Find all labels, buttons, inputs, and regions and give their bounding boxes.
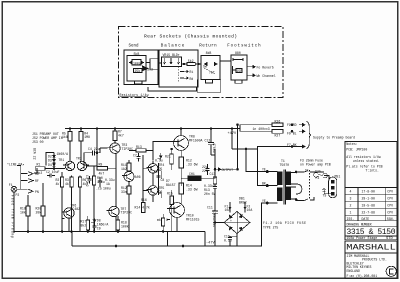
svg-text:4k7: 4k7: [65, 182, 71, 186]
transformer T1 secondary winding upper: [286, 172, 290, 185]
ML1 pin E: [331, 192, 334, 195]
arrow to preamp 2: [299, 130, 305, 133]
resistor R12b body: [127, 186, 131, 194]
svg-text:YE: YE: [262, 199, 266, 203]
wire P2 to contacts: [17, 188, 28, 190]
capacitor C13: [205, 164, 209, 175]
capacitor C16: [228, 234, 237, 247]
svg-text:4: 4: [350, 190, 352, 194]
resistor 25k in send jack: [134, 69, 143, 73]
wire contact feeds: [21, 174, 28, 181]
wire TR2 collector out: [87, 165, 97, 167]
svg-text:100u: 100u: [97, 180, 105, 184]
svg-text:Fo Reverb: Fo Reverb: [257, 65, 274, 69]
svg-text:MS1: MS1: [335, 175, 341, 179]
svg-text:33n: 33n: [121, 190, 127, 194]
svg-text:R16: R16: [141, 198, 147, 202]
svg-text:Resistors 1/4w: Resistors 1/4w: [120, 93, 149, 97]
wire feedback column: [142, 155, 144, 202]
svg-text:100u: 100u: [103, 187, 111, 191]
svg-text:+: +: [230, 219, 232, 223]
svg-text:R21: R21: [165, 155, 171, 159]
svg-text:4700u: 4700u: [212, 143, 216, 153]
svg-text:TYPE 275: TYPE 275: [263, 226, 278, 230]
transformer T1 secondary winding lower: [286, 187, 290, 200]
svg-text:8: 8: [166, 218, 168, 222]
bottom rail left: [14, 231, 205, 233]
node dot rail R5: [69, 128, 71, 130]
svg-text:R9: R9: [99, 162, 103, 166]
svg-text:C13: C13: [210, 172, 216, 176]
arrow Ri: [184, 70, 189, 72]
svg-text:BC482: BC482: [71, 207, 81, 211]
vertical wire x237: [237, 125, 239, 169]
transistor TR2: [77, 161, 86, 170]
svg-text:CPV: CPV: [387, 211, 393, 215]
svg-text:2: 2: [350, 204, 352, 208]
resistor R16v body: [142, 203, 145, 213]
wire TR10 emitter down: [167, 217, 177, 231]
wire TR10 collector: [180, 194, 182, 204]
wire C4 to TR3 base: [84, 148, 100, 166]
svg-text:OUTPUT: OUTPUT: [222, 168, 234, 172]
svg-text:DATE: DATE: [362, 217, 370, 221]
svg-text:TR1: TR1: [58, 158, 64, 162]
svg-text:100p: 100p: [133, 61, 141, 65]
svg-text:4k7: 4k7: [56, 182, 62, 186]
wire R20: [42, 183, 44, 232]
svg-text:F7 BK: F7 BK: [287, 143, 297, 147]
dashed wiper lines: [177, 67, 179, 82]
svg-text:YE: YE: [262, 168, 266, 172]
svg-text:Rear Sockets (Chassis mounted): Rear Sockets (Chassis mounted): [144, 34, 237, 40]
bottom rail lower: [72, 245, 262, 247]
svg-text:.33 6W: .33 6W: [186, 187, 198, 191]
wire to YE1: [246, 149, 268, 172]
arrow OUTPUT: [217, 168, 221, 171]
capacitor 100p in send jack: [132, 60, 141, 66]
resistor R15 body: [170, 196, 173, 205]
node dots bottom rail: [27, 231, 29, 233]
wire send to balance: [146, 59, 162, 70]
resistor R18 10k body: [26, 206, 30, 216]
transistor TR7: [109, 206, 119, 216]
resistor R13h body: [136, 149, 146, 152]
node dot R26: [291, 124, 293, 126]
svg-text:STD: STD: [386, 237, 394, 241]
transistor TR6: [64, 208, 74, 218]
resistor R12 emitter body: [179, 157, 184, 168]
emitter resistor Ra body: [61, 177, 64, 187]
svg-text:Sw: Sw: [203, 65, 207, 69]
svg-text:8k2: 8k2: [81, 223, 87, 227]
svg-text:D5: D5: [159, 167, 163, 171]
send jack SK8: [127, 56, 146, 82]
wire R9 right: [108, 151, 117, 168]
svg-text:.33 6W: .33 6W: [186, 162, 198, 166]
svg-text:C8: C8: [161, 178, 165, 182]
wire R11: [128, 160, 130, 174]
svg-text:1A2: 1A2: [121, 167, 127, 171]
wire fuse to ML1: [324, 176, 329, 181]
svg-text:RD: RD: [35, 172, 39, 176]
diode D8: [91, 219, 96, 225]
svg-text:PCB: JMP100: PCB: JMP100: [346, 148, 367, 152]
svg-text:4700u/63v: 4700u/63v: [212, 210, 216, 227]
svg-text:unless stated.: unless stated.: [353, 159, 380, 163]
wire TR3 emitter chain down: [115, 168, 117, 207]
diode stack D2 D3 D4: [53, 153, 55, 169]
svg-text:Rd: Rd: [190, 77, 194, 81]
svg-text:P2: P2: [16, 193, 20, 197]
bridge rectifier DB1 diamond: [224, 212, 250, 234]
wire R7: [114, 129, 116, 143]
arrow Fo Reverb: [247, 66, 255, 69]
svg-text:4k7: 4k7: [99, 172, 105, 176]
svg-text:CH1: CH1: [189, 172, 195, 176]
svg-text:F3: F3: [316, 176, 320, 180]
send section wire box: [124, 50, 158, 85]
svg-text:29-1-90: 29-1-90: [362, 197, 375, 201]
svg-text:TS: TS: [323, 194, 327, 198]
svg-text:DRAWING NUMBER: DRAWING NUMBER: [347, 222, 372, 226]
wire balance bottom loop: [148, 87, 197, 91]
table row lines: [345, 195, 397, 216]
wire branch to R27: [240, 129, 272, 132]
svg-text:Supply to Preamp board: Supply to Preamp board: [313, 136, 355, 140]
revision table frame: [345, 188, 397, 221]
return jack SK8: [201, 56, 220, 80]
svg-text:1M8: 1M8: [84, 135, 90, 139]
svg-text:10k: 10k: [20, 211, 26, 215]
drawing number band: [345, 221, 397, 227]
transistor TR4 bias: [124, 172, 134, 182]
wire bottom to ML1: [296, 197, 314, 201]
capacitor C3 2n2: [88, 176, 92, 184]
svg-text:.C5: .C5: [96, 187, 102, 191]
wire R13h: [129, 149, 153, 151]
svg-text:R27: R27: [275, 134, 281, 138]
svg-text:C12: C12: [205, 139, 211, 143]
wire P2 down to rail: [13, 192, 15, 233]
wire to switch live: [296, 171, 324, 173]
svg-text:Wh Channel: Wh Channel: [257, 74, 276, 78]
svg-text:Ri: Ri: [190, 70, 194, 74]
fuse F2 arrow: [244, 206, 246, 213]
svg-text:on Power amp PCB: on Power amp PCB: [300, 163, 331, 167]
send jack tip contact: [130, 61, 133, 64]
node dots transformer wires: [266, 171, 268, 173]
wire contacts up to R1: [34, 168, 37, 173]
svg-text:C4 22u: C4 22u: [88, 147, 100, 151]
svg-text:RF: RF: [35, 179, 39, 183]
transformer T1 primary winding lower: [278, 188, 283, 201]
transformer T1 primary winding upper: [278, 172, 283, 185]
choke CH1: [188, 176, 201, 181]
svg-text:MARSHALL: MARSHALL: [346, 243, 396, 253]
wire secondary taps right: [291, 172, 297, 199]
transformer core: [284, 170, 286, 205]
svg-text:5k3: 5k3: [147, 68, 153, 72]
wire R1 to base node: [45, 168, 65, 170]
wire TR5b emitter right: [158, 193, 162, 198]
resistor R8 body: [93, 176, 96, 185]
svg-text:17-8-90: 17-8-90: [362, 190, 375, 194]
svg-text:15R: 15R: [237, 69, 243, 73]
subtitle band: [345, 236, 397, 240]
transistor TR3: [110, 143, 120, 153]
wire F7 BK: [258, 147, 304, 150]
svg-text:ISS.: ISS.: [347, 217, 355, 221]
svg-text:4k7: 4k7: [83, 182, 89, 186]
transistor TR5b: [148, 186, 158, 196]
resistor R26: [272, 123, 283, 127]
svg-text:R15: R15: [167, 192, 173, 196]
node dot base TR1: [53, 168, 55, 170]
svg-text:MF1500A: MF1500A: [189, 138, 202, 142]
resistor R17 8k2 body: [86, 220, 89, 230]
footswitch jack: [231, 55, 247, 80]
capacitor C6: [157, 174, 161, 180]
resistor 5k2: [187, 63, 195, 66]
svg-text:C9: C9: [97, 227, 101, 231]
diode D7: [158, 153, 163, 161]
wire CH1 left: [181, 177, 188, 179]
zobel R13z: [213, 177, 216, 184]
wire LINE PA drop: [17, 166, 21, 190]
wire R4 to TR2: [80, 141, 82, 161]
svg-text:0.1u: 0.1u: [224, 238, 232, 242]
svg-text:R14 4.7k: R14 4.7k: [135, 206, 150, 210]
jack contact 3: [28, 189, 34, 193]
svg-text:Return: Return: [199, 44, 217, 48]
transistor TR5a: [148, 164, 158, 174]
notes box: [345, 142, 397, 188]
svg-text:1: 1: [350, 211, 352, 215]
svg-text:CPV: CPV: [387, 190, 393, 194]
wire TR5 bases: [143, 168, 148, 190]
svg-text:BCA 22: BCA 22: [33, 148, 37, 160]
send jack sleeve tab: [135, 81, 143, 84]
svg-text:TIP30C: TIP30C: [122, 147, 134, 151]
wire CH1 right to output: [201, 169, 238, 178]
fuse F1 arrow: [229, 206, 231, 213]
table column lines: [358, 188, 385, 221]
wire TR3 base: [100, 147, 108, 149]
svg-text:100k: 100k: [121, 224, 129, 228]
resistor R7 body: [113, 131, 117, 141]
zobel cap: [213, 184, 217, 191]
vertical wire x232: [231, 129, 233, 150]
svg-text:25k: 25k: [135, 69, 141, 73]
arrow Wh Channel: [247, 74, 255, 77]
small part mk8: [162, 218, 165, 226]
capacitor C2 10u: [47, 174, 55, 178]
svg-text:PN: PN: [35, 190, 39, 194]
svg-text:SGN.: SGN.: [387, 217, 395, 221]
svg-text:BK: BK: [262, 182, 266, 186]
wire into transformer: [267, 172, 277, 203]
resistor R20 20k body: [41, 206, 45, 216]
wire bridge left to C11 line: [215, 222, 224, 224]
return jack switch dashed: [204, 68, 215, 74]
svg-text:F:ax (0)-908-081: F:ax (0)-908-081: [347, 274, 378, 278]
wire diode top: [46, 153, 54, 166]
svg-text:F1: F1: [9, 183, 13, 187]
svg-text:20k: 20k: [36, 211, 42, 215]
capacitor C12 4700u: [208, 129, 214, 156]
svg-text:R13: R13: [136, 145, 142, 149]
svg-text:VR15 BLDr: VR15 BLDr: [163, 53, 180, 57]
transistor TR8 power: [174, 136, 189, 151]
return jack sleeve tab: [206, 80, 213, 83]
svg-text:C2 10uF: C2 10uF: [46, 170, 59, 174]
svg-text:1n 400vx3: 1n 400vx3: [253, 127, 270, 131]
svg-text:D4: D4: [48, 163, 52, 167]
node dot R27: [291, 130, 293, 132]
svg-text:MF11015: MF11015: [186, 217, 199, 221]
svg-text:1k8: 1k8: [62, 135, 68, 139]
svg-text:T:ints.: T:ints.: [366, 168, 379, 172]
svg-text:Feed from Preamp: Feed from Preamp: [11, 195, 15, 238]
wire zobel down: [214, 191, 216, 209]
ML1 pin N: [331, 186, 334, 189]
wire return bottom loop: [197, 80, 221, 93]
svg-text:8kB: 8kB: [206, 51, 212, 55]
svg-text:3: 3: [350, 197, 352, 201]
svg-text:F1.2 10A PICO FUSE: F1.2 10A PICO FUSE: [263, 221, 306, 225]
address box: [345, 253, 397, 278]
resistor R9 body: [97, 167, 108, 170]
svg-text:C6: C6: [154, 170, 158, 174]
svg-text:JS3 00: JS3 00: [32, 140, 44, 144]
footswitch sleeve tab: [235, 80, 242, 83]
svg-text:19-5-88: 19-5-88: [362, 204, 375, 208]
transistor TR10 power: [170, 203, 185, 218]
wire TR8 collector up: [180, 129, 182, 136]
svg-text:A06: A06: [135, 175, 141, 179]
svg-text:4k7: 4k7: [118, 134, 124, 138]
svg-text:TIP29C: TIP29C: [121, 211, 133, 215]
wire +47V top rail: [65, 128, 240, 130]
resistor R11 body: [127, 163, 131, 171]
svg-text:880: 880: [235, 51, 241, 55]
svg-text:C11: C11: [207, 206, 213, 210]
wire TR8 base: [153, 142, 171, 161]
svg-text:CPV: CPV: [387, 204, 393, 208]
jumper loop right: [296, 184, 302, 194]
svg-text:10A: 10A: [225, 208, 231, 212]
bridge diode marks: [229, 214, 243, 231]
svg-text:F9 BL: F9 BL: [287, 132, 297, 136]
rear sockets dash-dot box: [119, 27, 284, 98]
svg-text:20n 5W: 20n 5W: [204, 192, 216, 196]
mains inlet ML1: [329, 177, 337, 198]
resistor R1 2k2 body: [35, 167, 45, 170]
svg-text:Footswitch: Footswitch: [227, 43, 261, 48]
svg-text:75T: 75T: [209, 71, 215, 75]
copyright circle: [386, 266, 396, 276]
wire y149: [232, 148, 258, 150]
wire C12 bottom to rail: [211, 149, 215, 169]
capacitor C9: [93, 225, 97, 231]
svg-text:150w Power Stage: 150w Power Stage: [347, 236, 378, 240]
svg-text:Send: Send: [129, 43, 139, 48]
wire R5 to TR1: [69, 141, 71, 161]
vertical wire x158: [158, 163, 160, 195]
svg-text:TR2: TR2: [76, 157, 82, 161]
wire TR7 down: [115, 217, 117, 232]
svg-text:-47V: -47V: [206, 242, 215, 246]
node dot F7: [291, 146, 293, 148]
svg-text:ENGLAND: ENGLAND: [347, 269, 360, 273]
brace supply: [307, 122, 312, 149]
svg-text:CPV: CPV: [387, 197, 393, 201]
svg-text:T5070: T5070: [280, 163, 290, 167]
big number band: [345, 227, 397, 236]
wire TR5 chain: [152, 161, 154, 202]
svg-text:S1: S1: [305, 169, 309, 173]
svg-text:PRODUCTS LTD.: PRODUCTS LTD.: [362, 258, 387, 262]
pot VR15 box: [162, 57, 182, 67]
wire YE2 to rail: [262, 203, 268, 246]
wire TR8 emitter to R12: [180, 150, 182, 186]
earth wire: [322, 188, 331, 194]
resistor R14p body: [179, 183, 184, 194]
svg-text:0.1u: 0.1u: [155, 159, 163, 163]
balance section wire box: [159, 50, 198, 87]
wire branch to R26: [240, 125, 272, 129]
wire to BK: [258, 149, 268, 186]
pot terminal arrows: [163, 58, 165, 64]
wire bridge top feeds: [230, 202, 245, 206]
svg-text:Balance: Balance: [161, 43, 185, 48]
capacitor C4 22u: [87, 150, 100, 155]
svg-text:220: 220: [202, 169, 208, 173]
resistor 15k in footswitch: [233, 58, 243, 61]
wire R18: [27, 195, 29, 232]
wire return to footswitch: [220, 60, 231, 62]
arrow to preamp 1: [299, 123, 305, 126]
svg-text:F9 RD: F9 RD: [287, 123, 297, 127]
capacitor C5 100u: [98, 177, 102, 187]
svg-text:Notes:: Notes:: [346, 142, 358, 146]
svg-text:T2A: T2A: [315, 169, 321, 173]
fuse F3: [314, 173, 328, 178]
wire TR6 down: [62, 218, 69, 231]
resistor R4 1M8 body: [79, 132, 83, 142]
switch S1 dashed: [309, 170, 311, 200]
capacitor C7: [137, 153, 141, 162]
svg-text:1N60/A: 1N60/A: [57, 152, 69, 156]
wires emitters to resistors: [62, 172, 80, 177]
resistor R21 body: [170, 154, 173, 164]
resistor R19 100k body: [116, 220, 119, 230]
resistor R27: [272, 130, 283, 134]
rail link verticals: [72, 232, 205, 247]
wire R5 top: [69, 129, 71, 132]
svg-text:BA157: BA157: [166, 183, 176, 187]
jack contact 2: [28, 179, 34, 183]
wire pot to 5k2 to return: [182, 63, 202, 65]
arrow to preamp 3: [299, 145, 305, 148]
wire rail to R9 column: [96, 129, 98, 167]
wire R15: [171, 190, 173, 232]
emitter resistor Rc body: [79, 177, 82, 187]
wire TR4 to R12b: [128, 182, 130, 232]
wire TR5a emitter right: [158, 171, 162, 179]
input connector P2: [11, 186, 17, 192]
